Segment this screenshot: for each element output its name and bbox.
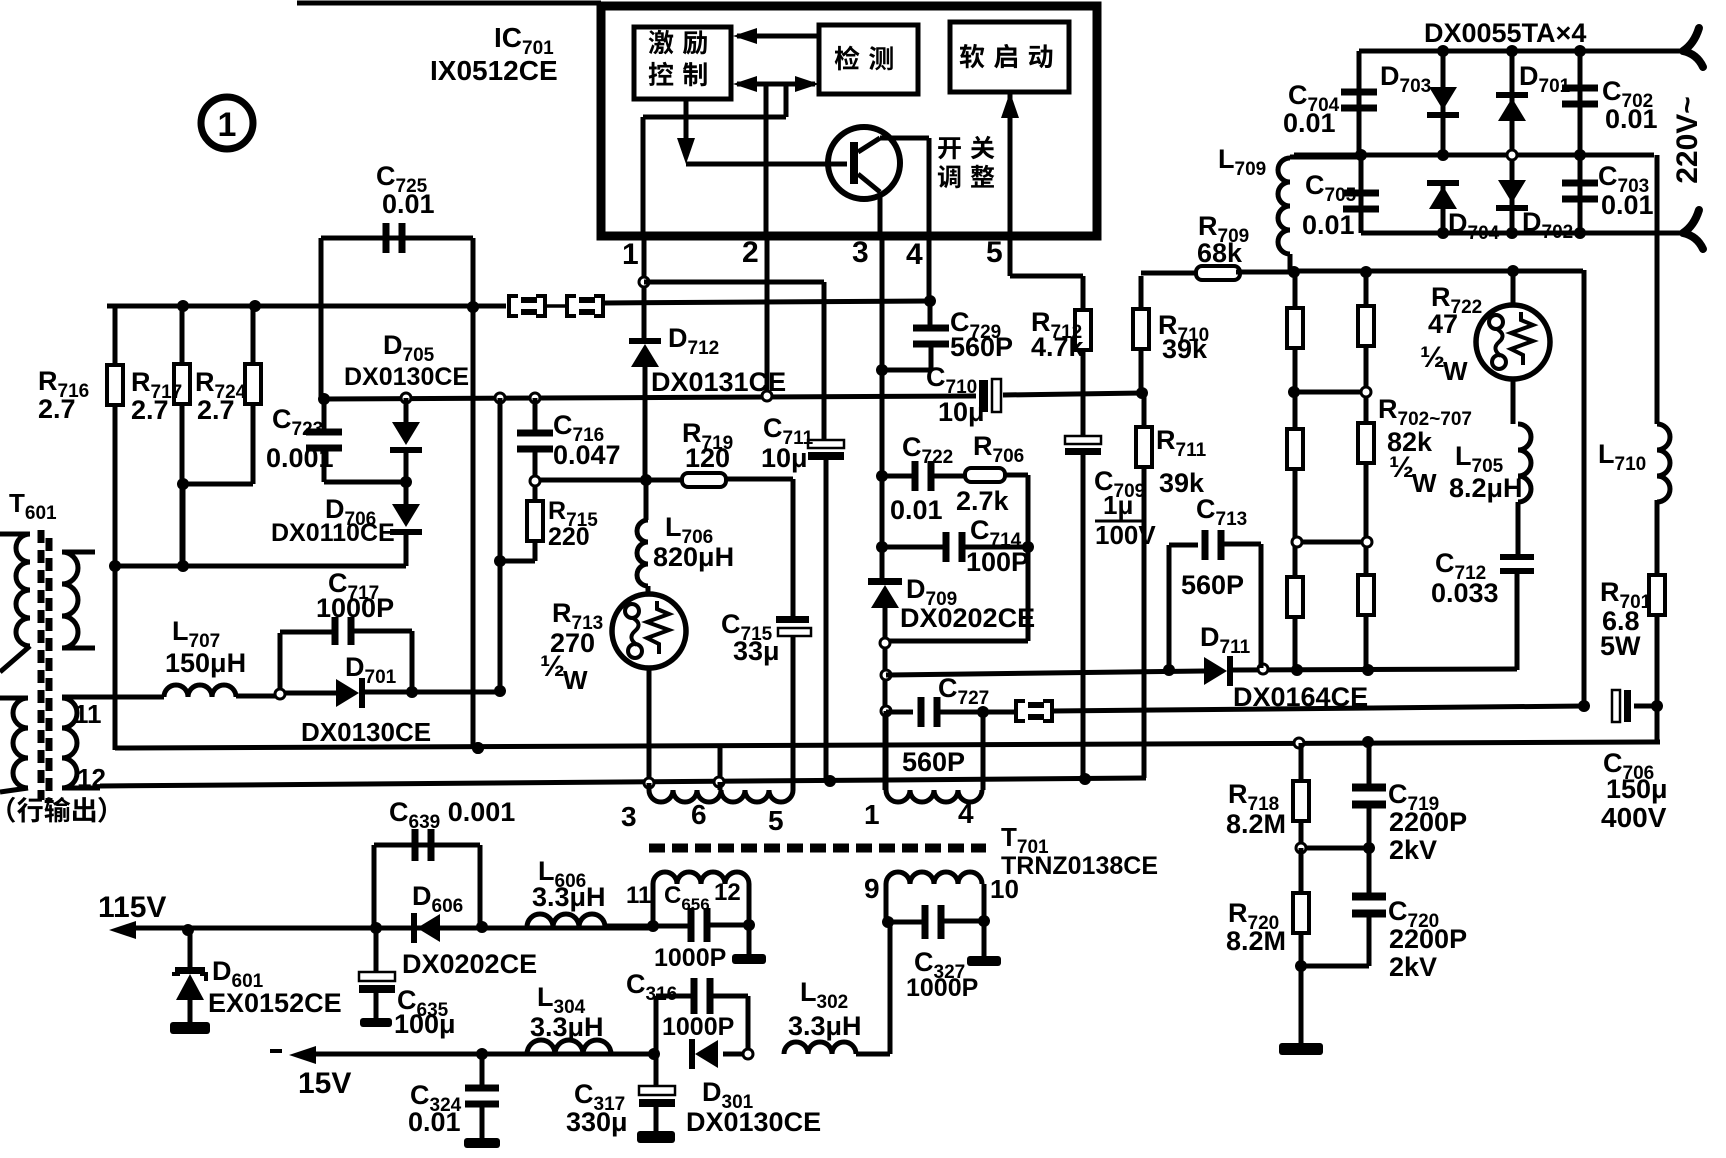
svg-text:0.01: 0.01 bbox=[1283, 108, 1336, 138]
svg-text:W: W bbox=[1412, 468, 1437, 498]
svg-text:120: 120 bbox=[685, 443, 730, 473]
svg-text:2: 2 bbox=[742, 236, 759, 269]
capacitor C727 560P bbox=[918, 697, 925, 727]
wire pin1 drop bbox=[642, 240, 647, 338]
T601 secondary upper-right bbox=[62, 550, 95, 555]
svg-text:8.2M: 8.2M bbox=[1226, 809, 1286, 839]
svg-text:3.3μH: 3.3μH bbox=[788, 1011, 862, 1041]
stray scan line top bbox=[297, 1, 601, 6]
ladder resistors right column bbox=[1364, 272, 1369, 670]
svg-text:IX0512CE: IX0512CE bbox=[430, 55, 558, 86]
capacitor C704 bbox=[1357, 51, 1362, 155]
diode D703 bbox=[1441, 51, 1446, 155]
inductor L710 bbox=[1657, 424, 1670, 502]
svg-text:TRNZ0138CE: TRNZ0138CE bbox=[1001, 852, 1158, 880]
svg-text:3: 3 bbox=[621, 801, 637, 832]
zener D601 EX0152CE bbox=[188, 930, 193, 967]
capacitor C639 0.001 loop bbox=[372, 845, 377, 928]
wire C725 right drop bbox=[471, 238, 476, 748]
svg-text:2kV: 2kV bbox=[1389, 835, 1437, 865]
resistor R719 120 bbox=[682, 473, 726, 487]
svg-text:820μH: 820μH bbox=[653, 542, 734, 572]
svg-text:4.7k: 4.7k bbox=[1031, 332, 1085, 362]
svg-text:4: 4 bbox=[958, 798, 974, 829]
wire R724 bottom link bbox=[183, 482, 253, 487]
svg-text:0.01: 0.01 bbox=[1302, 210, 1355, 240]
svg-text:3: 3 bbox=[852, 236, 869, 269]
svg-text:15V: 15V bbox=[298, 1067, 351, 1100]
svg-text:0.01: 0.01 bbox=[1601, 190, 1654, 220]
diode D701 DX0130CE bbox=[285, 691, 336, 696]
wire pin1 internal vertical bbox=[641, 117, 646, 240]
capacitor C706 150u 400V bbox=[1612, 690, 1620, 722]
svg-text:5W: 5W bbox=[1600, 631, 1641, 661]
connector symbols on rail y307 bbox=[509, 296, 518, 316]
diode D706 bbox=[404, 482, 409, 504]
ladder resistors R702~707 left column bbox=[1293, 272, 1298, 670]
svg-text:0.01: 0.01 bbox=[382, 189, 435, 219]
svg-text:3.3μH: 3.3μH bbox=[532, 882, 606, 912]
resistor R716 2.7 bbox=[113, 306, 118, 366]
connector symbol on y711 bbox=[1016, 701, 1025, 721]
svg-text:2200P: 2200P bbox=[1389, 924, 1467, 954]
svg-text:150μH: 150μH bbox=[165, 648, 246, 678]
wire drive-control/detector lower link with arrows bbox=[737, 82, 786, 87]
transformer T601 core bbox=[38, 530, 45, 800]
resistor R709 68k bbox=[1141, 271, 1200, 276]
svg-text:100P: 100P bbox=[966, 547, 1029, 577]
capacitor C722 0.01 bbox=[876, 470, 888, 482]
capacitor C715 33u bbox=[776, 616, 809, 623]
svg-text:1: 1 bbox=[622, 238, 639, 271]
svg-text:1μ: 1μ bbox=[1103, 490, 1133, 520]
label line-output (hang shu chu) bbox=[7, 797, 15, 823]
svg-text:3.3μH: 3.3μH bbox=[530, 1012, 604, 1042]
wire box bottom bbox=[886, 639, 1028, 644]
diode D301 DX0130CE bbox=[695, 1040, 718, 1068]
svg-text:400V: 400V bbox=[1601, 802, 1667, 833]
svg-text:12: 12 bbox=[77, 763, 106, 793]
svg-text:12: 12 bbox=[714, 879, 741, 906]
resistor R724 2.7 bbox=[251, 306, 256, 367]
wire 220V right vertical drop bbox=[1655, 155, 1660, 424]
T601 winding pins 11-12 bbox=[62, 698, 77, 788]
svg-text:W: W bbox=[563, 665, 588, 695]
junction rings rail y396 bbox=[318, 393, 330, 405]
resistor R706 2.7k bbox=[965, 468, 1005, 482]
wire C723 to diode chain bbox=[324, 480, 406, 485]
resistor R712 4.7k bbox=[1081, 276, 1086, 311]
capacitor C635 100u bbox=[374, 930, 379, 972]
wire pin2 drop to rail bbox=[765, 240, 770, 393]
svg-text:DX0130CE: DX0130CE bbox=[301, 717, 431, 747]
wire L707 node up to C717 bbox=[275, 689, 285, 699]
svg-text:4: 4 bbox=[906, 238, 923, 271]
wire C715 column bbox=[791, 479, 796, 616]
wire rail y396 with C710 bbox=[324, 396, 976, 399]
svg-text:39k: 39k bbox=[1162, 334, 1208, 364]
svg-text:10: 10 bbox=[990, 874, 1019, 904]
svg-text:100V: 100V bbox=[1095, 520, 1156, 550]
svg-text:10μ: 10μ bbox=[761, 443, 808, 473]
capacitor C720 2200P 2kV bbox=[1367, 848, 1372, 897]
wire AC top rail bbox=[1359, 49, 1688, 54]
inductor L705 8.2uH bbox=[1511, 379, 1516, 424]
wire rail y672 bbox=[881, 670, 891, 680]
svg-text:DX0130CE: DX0130CE bbox=[344, 363, 469, 391]
svg-text:8.2M: 8.2M bbox=[1226, 926, 1286, 956]
capacitor C703 bbox=[1578, 155, 1583, 233]
svg-text:47: 47 bbox=[1428, 309, 1458, 339]
diode D711 DX0164CE bbox=[1204, 657, 1227, 685]
inductor L304 3.3uH bbox=[527, 1040, 611, 1054]
svg-text:1000P: 1000P bbox=[906, 974, 978, 1002]
svg-text:0.033: 0.033 bbox=[1431, 578, 1499, 608]
capacitor C725 0.01 bbox=[321, 236, 473, 241]
svg-text:11: 11 bbox=[626, 882, 651, 909]
wire pin4 drop bbox=[927, 240, 932, 301]
transformer T701 winding 3-6-5 bbox=[647, 783, 652, 790]
wire link y848 bbox=[1301, 846, 1369, 851]
svg-text:DX0110CE: DX0110CE bbox=[271, 519, 395, 547]
svg-text:5: 5 bbox=[986, 236, 1003, 269]
wire soft-start to pin5 with up arrow bbox=[1008, 92, 1013, 240]
wire box right vertical bbox=[1026, 475, 1031, 641]
svg-text:220: 220 bbox=[548, 523, 590, 551]
T601 primary winding upper-left bbox=[0, 532, 30, 537]
svg-text:11: 11 bbox=[74, 699, 102, 729]
diode D606 DX0202CE bbox=[417, 914, 440, 942]
svg-text:DX0130CE: DX0130CE bbox=[686, 1107, 821, 1137]
wire pin1 node to C711 column bbox=[644, 280, 824, 285]
svg-text:0.01: 0.01 bbox=[1605, 104, 1658, 134]
capacitor C713 560P loop bbox=[1167, 545, 1172, 668]
ground symbol bbox=[1279, 1043, 1323, 1055]
svg-text:DX0055TA×4: DX0055TA×4 bbox=[1424, 18, 1586, 48]
switch-regulate label (kai-guan tiao-zheng) bbox=[938, 137, 961, 159]
posistor R713 270 1/2W bbox=[612, 594, 686, 668]
svg-text:560P: 560P bbox=[950, 332, 1013, 362]
wire C725 left drop bbox=[319, 238, 324, 399]
wire R713 down to T701 pin3 bbox=[647, 668, 652, 790]
svg-text:2kV: 2kV bbox=[1389, 952, 1437, 982]
capacitor C723 0.001 bbox=[322, 399, 327, 433]
svg-text:5: 5 bbox=[768, 805, 784, 836]
T601 winding lower-left bbox=[0, 696, 28, 701]
wire collector to pin4 bbox=[880, 136, 929, 141]
diode D712 DX0131CE bbox=[629, 338, 661, 344]
wire 115V output line bbox=[109, 921, 136, 939]
capacitor C327 1000P bbox=[888, 920, 926, 925]
svg-text:½: ½ bbox=[1420, 341, 1445, 374]
svg-text:DX0202CE: DX0202CE bbox=[402, 949, 537, 979]
inductor L706 820uH bbox=[644, 480, 649, 520]
capacitor C710 10u series electrolytic bbox=[979, 380, 988, 412]
wire 983 column bbox=[981, 712, 986, 790]
junction dots bridge bbox=[1437, 45, 1449, 57]
svg-text:560P: 560P bbox=[1181, 570, 1244, 600]
capacitor C324 0.01 bbox=[480, 1054, 485, 1088]
svg-text:0.01: 0.01 bbox=[890, 495, 943, 525]
capacitor C317 330u bbox=[654, 1054, 659, 1086]
svg-text:W: W bbox=[1443, 356, 1468, 386]
svg-text:33μ: 33μ bbox=[733, 636, 780, 666]
inductor L606 3.3uH bbox=[527, 914, 605, 927]
wire drive-control output arrow down bbox=[684, 99, 689, 152]
IC701 inner box soft-start (ruan qi-dong) bbox=[950, 22, 1069, 92]
op-amp U1 : IC701 IX0512CE control IC outline bbox=[601, 6, 1097, 236]
wire rail y711 with C727 bbox=[886, 710, 913, 715]
transformer T701 winding 1-4 bbox=[884, 711, 889, 790]
wire top dc rail to R722/L710 bbox=[1294, 269, 1583, 274]
svg-text:0.047: 0.047 bbox=[553, 440, 621, 470]
wire detector to drive-control with left arrow bbox=[737, 34, 819, 39]
capacitor C705 bbox=[1359, 155, 1364, 233]
transformer T701 winding 11-12 bbox=[653, 872, 749, 884]
wire pin3/emitter column bbox=[880, 240, 885, 580]
diode D705 bbox=[404, 398, 409, 422]
resistor R718 8.2M bbox=[1299, 743, 1304, 782]
svg-text:6: 6 bbox=[691, 799, 707, 830]
diode D709 DX0202CE bbox=[868, 578, 902, 585]
capacitor C719 2200P 2kV bbox=[1367, 742, 1372, 789]
wire base line to transistor bbox=[686, 162, 847, 167]
resistor R711 39k bbox=[1142, 392, 1147, 428]
svg-text:DX0202CE: DX0202CE bbox=[900, 603, 1035, 633]
wire AC bottom rail bbox=[1361, 231, 1688, 236]
svg-text:9: 9 bbox=[864, 873, 880, 904]
capacitor C702 bbox=[1578, 51, 1583, 155]
svg-text:2.7: 2.7 bbox=[38, 394, 76, 424]
terminal hook top 220V bbox=[1683, 28, 1703, 67]
resistor R701 6.8 5W bbox=[1655, 500, 1660, 576]
transformer T701 winding 9-10 bbox=[886, 872, 982, 884]
svg-text:0.001: 0.001 bbox=[266, 443, 334, 473]
wire drop to C706 from corner bbox=[1582, 270, 1587, 706]
svg-text:EX0152CE: EX0152CE bbox=[208, 988, 342, 1018]
capacitor C709 1u/100V bbox=[1065, 436, 1101, 444]
capacitor C716 0.047 bbox=[533, 398, 538, 433]
resistor R717 2.7 bbox=[180, 306, 185, 366]
svg-text:½: ½ bbox=[1389, 451, 1414, 484]
diode D701 (bridge) bbox=[1510, 51, 1515, 155]
svg-text:220V~: 220V~ bbox=[1671, 96, 1704, 184]
svg-text:560P: 560P bbox=[902, 747, 965, 777]
wire long rail y783 bbox=[100, 778, 1146, 786]
capacitor C656 1000P bbox=[653, 924, 692, 929]
transformer T701 core hatch bbox=[649, 844, 986, 853]
svg-text:8.2μH: 8.2μH bbox=[1449, 473, 1523, 503]
wire R715 bottom link bbox=[500, 559, 535, 564]
capacitor C714 100P bbox=[876, 541, 888, 553]
wire pin2 internal vertical bbox=[764, 84, 769, 240]
svg-text:10μ: 10μ bbox=[938, 397, 985, 427]
svg-text:330μ: 330μ bbox=[566, 1107, 628, 1137]
wire rail y307 left bbox=[107, 304, 506, 309]
ladder cross links bbox=[1295, 390, 1366, 395]
thermistor R722 47 1/2W bbox=[1507, 265, 1519, 277]
wire C717 right drop bbox=[410, 631, 415, 692]
resistor R715 220 bbox=[530, 476, 540, 486]
svg-text:1: 1 bbox=[864, 799, 880, 830]
svg-text:2.7k: 2.7k bbox=[956, 486, 1010, 516]
wire C729 bottom to emitter column bbox=[882, 368, 931, 373]
wire to ground bbox=[1301, 964, 1369, 969]
svg-text:115V: 115V bbox=[98, 891, 166, 924]
svg-text:1000P: 1000P bbox=[654, 944, 726, 972]
terminal hook bottom 220V bbox=[1683, 210, 1703, 249]
resistor R710 39k bbox=[1139, 276, 1144, 310]
wire pin6 link bbox=[718, 746, 723, 782]
inductor L707 150uH bbox=[62, 695, 164, 700]
capacitor C717 1000P bbox=[332, 617, 339, 645]
capacitor C712 0.033 bbox=[1516, 502, 1521, 556]
inductor L302 3.3uH bbox=[784, 1042, 856, 1054]
capacitor C711 10u bbox=[822, 282, 827, 440]
wire node line inside IC bbox=[643, 115, 786, 120]
wire DC mid rail of bridge bbox=[1294, 153, 1654, 158]
svg-text:2.7: 2.7 bbox=[197, 395, 235, 425]
inductor L709 bbox=[1290, 155, 1361, 160]
wire to detector arrow right bbox=[784, 84, 789, 117]
svg-text:DX0131CE: DX0131CE bbox=[651, 367, 786, 397]
wire emitter to pin3 bbox=[878, 192, 883, 240]
svg-text:0.01: 0.01 bbox=[408, 1107, 461, 1137]
IC701 inner box detector (jian-ce) bbox=[819, 25, 918, 94]
wire vertical x500 bbox=[498, 398, 503, 691]
wire y566 horizontal bbox=[115, 564, 406, 569]
svg-text:1000P: 1000P bbox=[662, 1013, 734, 1041]
svg-text:150μ: 150μ bbox=[1606, 774, 1668, 804]
IC701 inner box drive-control (ji-li kong-zhi) bbox=[634, 27, 731, 99]
svg-text:½: ½ bbox=[540, 650, 565, 683]
wire pin5 to R712 bbox=[1008, 240, 1013, 276]
resistor R720 8.2M bbox=[1299, 848, 1304, 894]
figure number circle 1 bbox=[201, 97, 253, 149]
svg-text:1: 1 bbox=[218, 106, 237, 144]
transistor Q1 switch-regulator inside IC701 bbox=[828, 127, 900, 199]
diode D704 bbox=[1427, 180, 1459, 186]
svg-text:68k: 68k bbox=[1197, 238, 1243, 268]
junction dots rail y307 bbox=[177, 300, 189, 312]
capacitor C729 560P bbox=[924, 295, 936, 307]
svg-text:1000P: 1000P bbox=[316, 593, 394, 623]
wire rail y307 right bbox=[604, 301, 930, 303]
svg-text:2.7: 2.7 bbox=[131, 395, 169, 425]
capacitor C316 1000P loop bbox=[654, 996, 659, 1054]
svg-text:100μ: 100μ bbox=[394, 1009, 456, 1039]
wire long rail y746 bbox=[115, 742, 1660, 748]
diode D702 bbox=[1510, 155, 1515, 233]
wire y480 R719 row bbox=[540, 478, 683, 483]
svg-text:2200P: 2200P bbox=[1389, 807, 1467, 837]
wire 15V output line bbox=[289, 1046, 316, 1064]
